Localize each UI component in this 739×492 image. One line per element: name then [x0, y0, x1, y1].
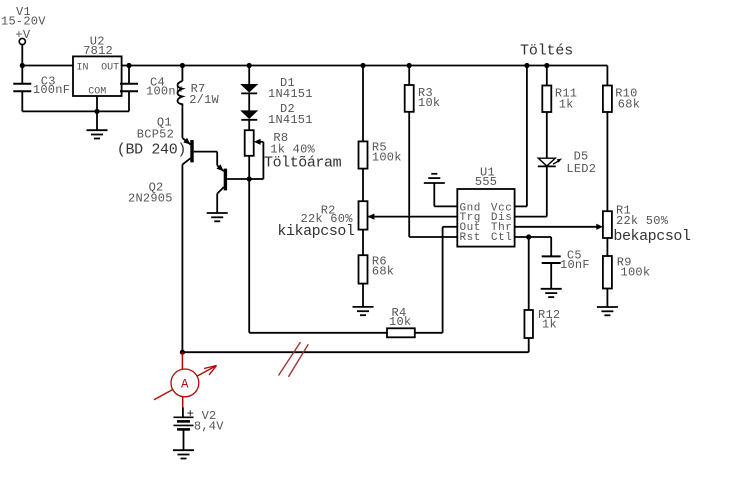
svg-text:kikapcsol: kikapcsol: [277, 223, 355, 240]
svg-text:2N2905: 2N2905: [128, 192, 173, 206]
wire R8 bottom: [248, 156, 250, 179]
ammeter needle: [154, 366, 217, 400]
ground under battery: [173, 450, 194, 458]
ground under R6: [353, 307, 374, 315]
wire R7 top: [181, 66, 183, 82]
svg-text:68k: 68k: [618, 97, 640, 111]
wire D1 to D2: [248, 93, 250, 110]
junction C4 top: [126, 63, 131, 68]
label V2: [194, 409, 224, 433]
wire rail to R11: [546, 66, 548, 86]
junction bottom left: [180, 350, 185, 355]
potentiometer R2: [359, 201, 368, 229]
label kikapcsol: [277, 223, 355, 240]
svg-text:68k: 68k: [372, 265, 394, 279]
resistor R10: [603, 86, 612, 113]
junction R5 top: [360, 63, 365, 68]
wire rail to R5: [362, 66, 364, 142]
svg-text:1k: 1k: [542, 317, 557, 331]
wire Ctl to C5: [515, 236, 552, 238]
diode D2: [240, 110, 258, 119]
wire rail corner down to R10: [606, 66, 608, 86]
wire R7 to Q1 emitter: [181, 107, 183, 138]
junction R11 rail: [544, 63, 549, 68]
label D5: [566, 150, 596, 176]
svg-text:A: A: [181, 377, 189, 391]
svg-text:100k: 100k: [621, 266, 651, 280]
resistor R3: [405, 85, 414, 112]
resistor R6: [359, 255, 368, 283]
regulator U2 box: [73, 56, 122, 96]
svg-text:Ctl: Ctl: [491, 232, 512, 244]
wire R5 to R2: [362, 169, 364, 202]
LED D5: [538, 158, 562, 166]
label V1: [1, 5, 46, 42]
svg-text:10nF: 10nF: [560, 258, 590, 272]
svg-text:10k: 10k: [418, 96, 440, 110]
label battery plus: [187, 407, 194, 421]
svg-text:10k: 10k: [389, 315, 411, 329]
pin Rst label: [460, 232, 481, 244]
R8 wiper arrow: [249, 139, 263, 179]
wire C4 top: [128, 66, 130, 84]
label Toltoaram: [264, 155, 342, 172]
pin Dis label: [491, 212, 512, 224]
wire R8 junction down: [248, 179, 250, 333]
label C3: [33, 74, 70, 97]
wire Q1 collector down: [181, 165, 183, 353]
resistor R9: [603, 256, 612, 289]
svg-text:100k: 100k: [372, 151, 402, 165]
ground under R9: [597, 307, 618, 315]
svg-text:2/1W: 2/1W: [189, 93, 219, 107]
pin Gnd label: [460, 202, 481, 214]
label C4: [146, 76, 183, 99]
label R4: [389, 306, 411, 329]
label Toltes: [520, 43, 573, 60]
junction R3 top: [407, 63, 412, 68]
pin Vcc label: [491, 202, 512, 214]
svg-text:100nF: 100nF: [33, 83, 70, 97]
wire to ammeter red: [181, 352, 183, 369]
junction COM-bottom: [94, 109, 99, 114]
svg-text:BCP52: BCP52: [137, 128, 174, 142]
wire R2 to R6: [362, 230, 364, 256]
node +V terminal V1: [19, 38, 25, 44]
wire R4 right: [415, 332, 443, 334]
resistor R7: [178, 81, 183, 107]
wire battery to ground: [183, 429, 185, 450]
label R5: [372, 141, 402, 165]
junction Ctl R12: [526, 234, 531, 239]
capacitor C3: [13, 84, 31, 91]
wire D2 to R8: [248, 120, 250, 130]
wire R3 to Rst: [409, 112, 457, 237]
svg-text:IN: IN: [77, 62, 89, 73]
wire rail to R3: [408, 66, 410, 86]
resistor R4: [387, 328, 415, 337]
wire to R4 left: [249, 332, 387, 334]
resistor R11: [542, 86, 551, 113]
transistor Q2: [217, 164, 250, 193]
pin IN label: [77, 62, 89, 73]
wire C4 bottom: [128, 91, 130, 111]
label R1: [616, 204, 669, 228]
svg-text:+V: +V: [15, 28, 30, 42]
label R6: [372, 254, 394, 278]
battery V2: [174, 417, 194, 429]
wire Ctl to R12: [528, 237, 530, 310]
svg-text:22k 50%: 22k 50%: [616, 214, 669, 228]
wire LED to Dis: [515, 166, 547, 216]
capacitor C4: [120, 84, 138, 91]
label R7: [189, 82, 219, 107]
wire long bottom: [182, 351, 528, 353]
svg-text:7812: 7812: [83, 44, 113, 58]
ground under Q2: [207, 213, 228, 221]
svg-text:COM: COM: [88, 87, 106, 98]
junction D1 top: [247, 63, 252, 68]
pin Trg label: [460, 212, 481, 224]
svg-text:(BD 240): (BD 240): [117, 141, 186, 158]
label D1: [268, 76, 313, 101]
wire R1 to R9: [606, 238, 608, 256]
svg-text:1N4151: 1N4151: [268, 87, 313, 101]
ground above U1 inverted: [424, 174, 445, 183]
svg-text:8,4V: 8,4V: [194, 419, 224, 433]
label Q2: [128, 180, 173, 205]
wire R11 to LED: [546, 112, 548, 158]
label Q1: [117, 115, 186, 158]
label R9: [617, 255, 651, 279]
wire Q1 base down: [216, 152, 218, 166]
svg-text:OUT: OUT: [101, 62, 119, 73]
label C5: [560, 248, 590, 271]
svg-text:1N4151: 1N4151: [268, 113, 313, 127]
wire R9 bottom: [606, 289, 608, 308]
ground under C5: [541, 289, 562, 297]
svg-text:555: 555: [475, 175, 497, 189]
svg-text:Rst: Rst: [460, 232, 481, 244]
ammeter A1 circle: [171, 369, 199, 397]
wire bottom C3 to C4: [22, 110, 129, 112]
label R8: [270, 131, 315, 157]
red break marks: [279, 342, 309, 377]
pin Out label: [460, 222, 481, 234]
junction Vcc rail: [524, 63, 529, 68]
wire rail U2 OUT to corner: [122, 65, 608, 67]
wire Gnd pin to ground: [434, 183, 457, 206]
wire ammeter to battery: [182, 397, 184, 418]
wire V1 to C3: [21, 45, 23, 84]
label U1: [475, 165, 497, 189]
op-amp timer U1 555 box: [457, 189, 514, 247]
label D2: [268, 102, 313, 127]
pin Thr label: [491, 222, 512, 234]
wire COM stub: [96, 96, 98, 130]
pin COM label: [88, 87, 106, 98]
potentiometer R8: [245, 130, 254, 156]
wire rail segment V1 to U2 IN: [22, 65, 73, 67]
pin OUT label: [101, 62, 119, 73]
label R10: [615, 87, 640, 112]
wire R6 bottom: [362, 284, 364, 307]
wire R10 to R1: [606, 112, 608, 211]
junction R7 top: [180, 63, 185, 68]
label R11: [555, 87, 577, 112]
pin Ctl label: [491, 232, 512, 244]
wire rail to D1: [248, 66, 250, 85]
wire Out drop: [443, 227, 458, 333]
resistor R12: [524, 310, 533, 338]
svg-text:Töltés: Töltés: [520, 43, 573, 60]
potentiometer R1: [603, 211, 612, 238]
transistor Q1: [182, 138, 217, 165]
wire C3 bottom: [21, 91, 23, 111]
label R12: [538, 308, 560, 332]
svg-text:1k: 1k: [559, 97, 574, 111]
wire Vcc riser: [515, 66, 527, 207]
junction V1-rail: [20, 63, 25, 68]
wire R12 bottom: [528, 338, 530, 352]
svg-text:LED2: LED2: [566, 162, 596, 176]
svg-text:bekapcsol: bekapcsol: [613, 228, 691, 245]
wire Q2 collector down: [216, 194, 218, 213]
R2 wiper arrow wire to Trg: [368, 214, 458, 220]
label bekapcsol: [613, 228, 691, 245]
junction R8 wiper Q2 base: [247, 176, 252, 181]
label R2: [301, 204, 354, 226]
diode D1: [240, 84, 258, 93]
resistor R5: [359, 141, 368, 168]
label U2: [83, 35, 113, 59]
wire Thr to R1 wiper: [515, 224, 604, 230]
capacitor C5: [542, 237, 561, 289]
ground under U2: [87, 130, 108, 138]
svg-text:15-20V: 15-20V: [1, 15, 46, 29]
label R3: [418, 86, 440, 110]
svg-text:Töltõáram: Töltõáram: [264, 155, 342, 172]
